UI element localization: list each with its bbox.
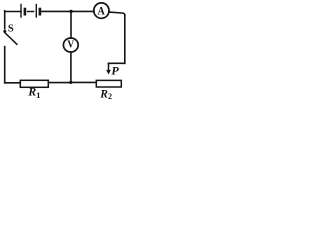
wire voltmeter branch upper [70,11,72,38]
svg-text:S: S [8,23,14,34]
svg-text:P: P [111,63,119,77]
svg-text:V: V [67,39,74,51]
node top junction [69,10,72,13]
wire top-left horizontal [5,11,21,13]
switch S blade [5,33,17,44]
switch pivot dot [3,30,6,33]
wire junction to R2 [71,81,97,83]
wire right vertical [124,15,126,64]
resistor R2 (rheostat) [96,80,121,87]
wire jog to slider [109,62,125,64]
ammeter A [94,3,109,18]
svg-text:A: A [98,5,105,18]
wire bottom-left to R1 [5,82,21,84]
resistor R1 [20,80,48,87]
slider arrow head [106,70,111,75]
node bottom junction [69,81,72,84]
wire battery to ammeter [42,10,94,12]
voltmeter V [63,38,78,52]
wire R1 to junction [48,82,71,84]
wire voltmeter branch lower [70,52,72,82]
slider arrow P shaft [108,63,110,70]
wire left vertical lower [4,47,6,83]
wire ammeter to top-right corner [109,12,125,15]
battery B1 [21,5,40,18]
wire left vertical upper [4,11,6,29]
